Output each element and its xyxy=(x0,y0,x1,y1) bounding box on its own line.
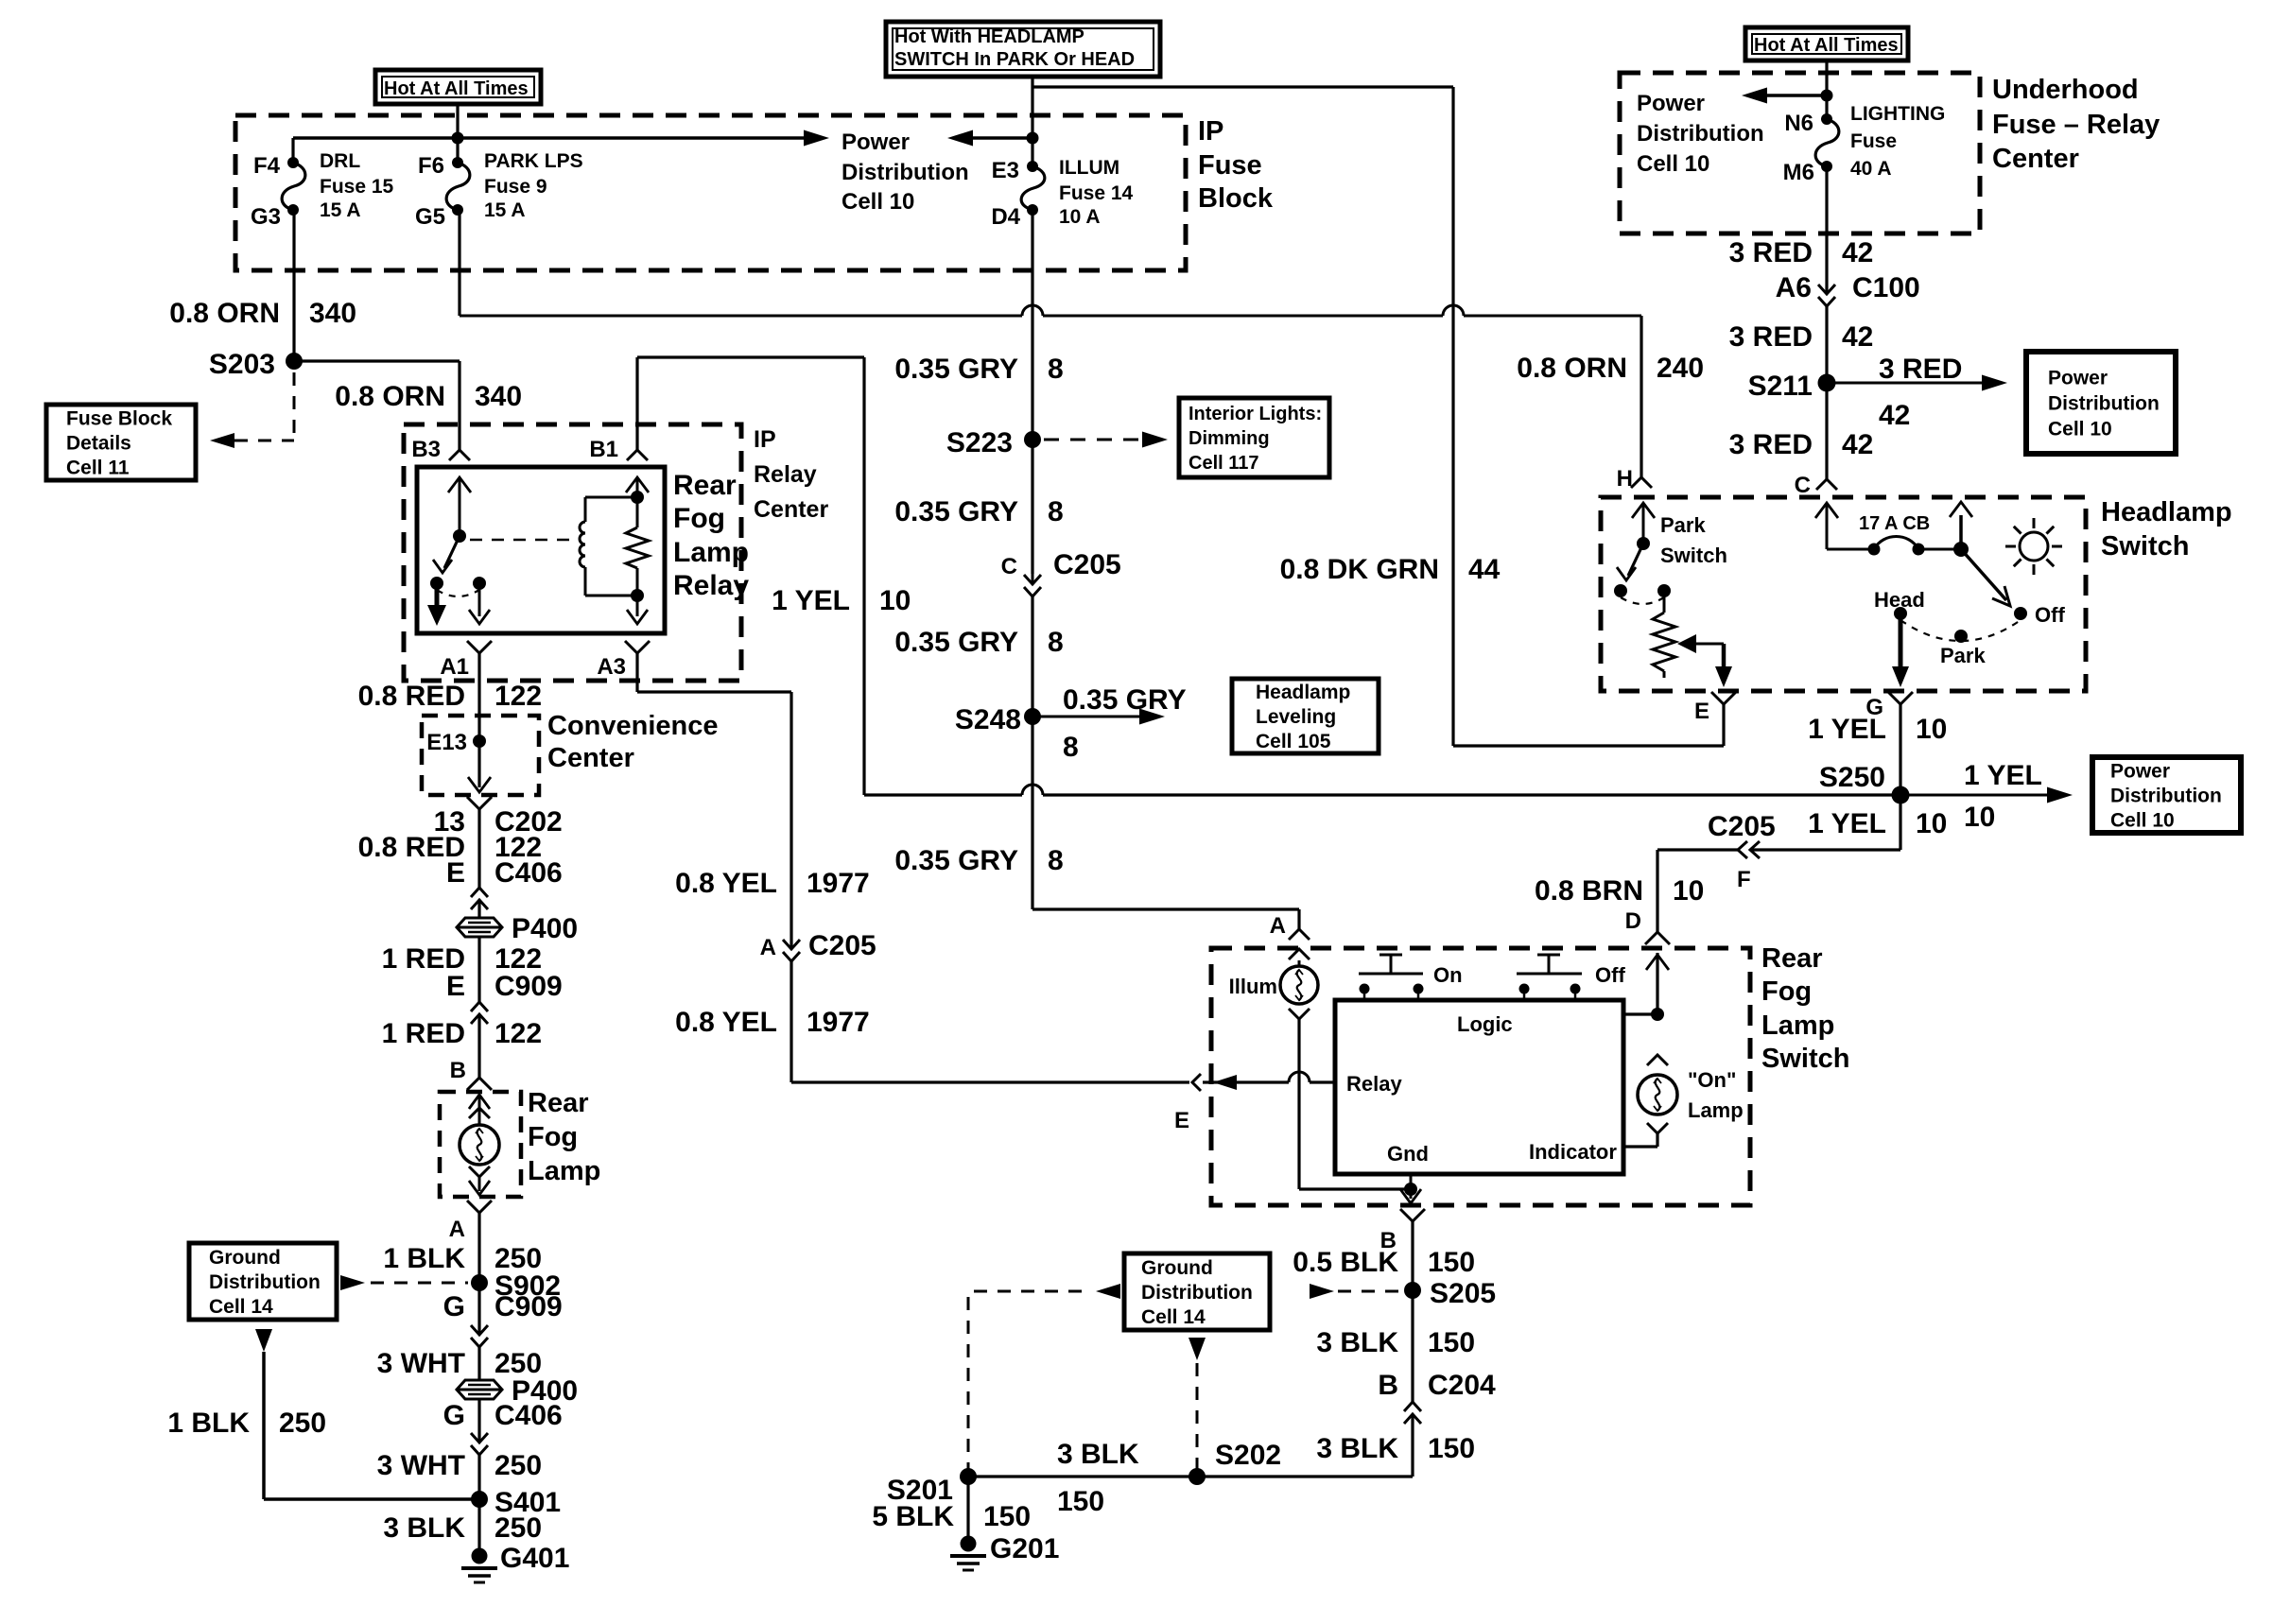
wire: to C406 connector xyxy=(477,809,480,888)
svg-text:G201: G201 xyxy=(990,1533,1059,1564)
fuse LIGHTING Fuse 40 A (N6-M6) xyxy=(1815,119,1839,166)
wire: 0.8 ORN 240 drop to H xyxy=(1640,316,1642,477)
wire: B1 riser to bus y=378 and east to x=914 xyxy=(635,357,638,450)
svg-text:A: A xyxy=(1270,913,1286,939)
wire+arrow into lamp xyxy=(469,1095,490,1109)
label box: Power Distribution Cell 10 (S250) xyxy=(2092,757,2241,833)
svg-text:Lamp: Lamp xyxy=(673,537,749,568)
wire: connector to S248 xyxy=(1031,596,1033,717)
wire: F6 drop xyxy=(456,138,459,163)
svg-text:0.8 BRN: 0.8 BRN xyxy=(1535,875,1643,907)
svg-text:3 BLK: 3 BLK xyxy=(1057,1439,1139,1470)
svg-text:Interior Lights:: Interior Lights: xyxy=(1189,404,1322,424)
wire: S211 to C pin xyxy=(1825,383,1828,479)
svg-text:150: 150 xyxy=(1428,1247,1475,1278)
node S203 xyxy=(286,353,303,370)
svg-text:PARK LPS: PARK LPS xyxy=(484,150,583,172)
svg-text:0.8 ORN: 0.8 ORN xyxy=(169,298,280,329)
arrow to Power Distribution (right) xyxy=(804,130,829,147)
relay resistor xyxy=(636,477,639,527)
svg-text:3 BLK: 3 BLK xyxy=(1316,1433,1398,1464)
wire: east to Rear Fog Lamp Switch pin E xyxy=(791,1080,1189,1083)
connector C406 lower (in-line) xyxy=(471,1433,488,1443)
svg-text:B: B xyxy=(1378,1370,1398,1401)
node: bus junction at F6 xyxy=(452,132,464,145)
wire: 0.8 BRN 10 down to D pin xyxy=(1656,850,1658,932)
pin A1 chevron xyxy=(467,641,492,653)
arrow: S250 to Power Distribution Cell 10 xyxy=(1900,794,2048,797)
svg-text:A: A xyxy=(449,1217,465,1242)
relay coil-switch dashed link xyxy=(470,539,577,542)
svg-text:SWITCH In PARK Or HEAD: SWITCH In PARK Or HEAD xyxy=(894,49,1135,70)
svg-text:Fuse 14: Fuse 14 xyxy=(1059,182,1134,204)
svg-text:340: 340 xyxy=(475,381,522,412)
svg-text:Center: Center xyxy=(1992,144,2079,174)
headlamp switch main contact feed xyxy=(1826,503,1829,549)
svg-text:Fuse 15: Fuse 15 xyxy=(320,176,394,198)
wire: S401 branch west and up to Ground Distribution xyxy=(264,1497,479,1501)
svg-text:Cell 10: Cell 10 xyxy=(2110,809,2175,831)
Rear Fog Lamp Switch dashed box xyxy=(1211,948,1750,1205)
svg-text:G5: G5 xyxy=(415,204,445,230)
contact Head xyxy=(1894,607,1907,620)
svg-text:A: A xyxy=(760,935,776,960)
svg-text:1 YEL: 1 YEL xyxy=(1808,714,1886,745)
wire: F4 drop xyxy=(291,138,294,162)
wire: E down, west, up DK GRN xyxy=(1722,704,1725,746)
svg-text:Fuse – Relay: Fuse – Relay xyxy=(1992,110,2160,140)
fuse PARK LPS Fuse 9 (F6-G5) xyxy=(446,163,470,210)
svg-text:C205: C205 xyxy=(1053,549,1121,580)
svg-text:Cell 105: Cell 105 xyxy=(1256,731,1331,752)
svg-text:E3: E3 xyxy=(992,158,1019,183)
svg-text:150: 150 xyxy=(983,1501,1031,1532)
svg-text:Convenience: Convenience xyxy=(547,711,719,741)
relay inner box (Rear Fog Lamp Relay) xyxy=(417,467,665,633)
node: junction above E3 xyxy=(1027,132,1039,145)
Logic box xyxy=(1335,1000,1623,1174)
svg-text:N6: N6 xyxy=(1784,111,1813,136)
svg-text:Rear: Rear xyxy=(528,1088,589,1118)
wire: lamp to box bottom with arrow xyxy=(469,1166,490,1177)
svg-text:Block: Block xyxy=(1198,183,1274,214)
svg-text:250: 250 xyxy=(495,1450,542,1481)
svg-text:1977: 1977 xyxy=(807,1007,870,1038)
dashed arrow: S223 to Interior Lights Dimming xyxy=(1044,439,1140,441)
wire: P400 to C406 lower connector xyxy=(477,1399,480,1443)
rheostat (dimmer) xyxy=(1663,591,1666,613)
svg-text:C205: C205 xyxy=(808,930,876,961)
wire: S201-S202-corner xyxy=(968,1475,1413,1477)
label box: Fuse Block Details Cell 11 xyxy=(46,405,196,480)
svg-text:340: 340 xyxy=(309,298,356,329)
svg-text:E: E xyxy=(446,857,465,889)
pin B1 chevron xyxy=(627,450,648,460)
svg-text:Cell 14: Cell 14 xyxy=(1141,1306,1206,1328)
svg-text:Indicator: Indicator xyxy=(1529,1140,1617,1164)
svg-text:10: 10 xyxy=(1964,802,1995,833)
switch blade to Off xyxy=(1961,549,2006,600)
svg-text:Switch: Switch xyxy=(1761,1044,1849,1074)
ground G201 xyxy=(961,1536,977,1552)
svg-text:Switch: Switch xyxy=(2101,531,2189,561)
wire: C100 to S211 xyxy=(1825,306,1828,383)
svg-text:ILLUM: ILLUM xyxy=(1059,157,1119,179)
svg-text:Cell 14: Cell 14 xyxy=(209,1296,273,1318)
node S205 xyxy=(1404,1282,1421,1299)
pin A3 chevron xyxy=(625,641,650,653)
svg-text:122: 122 xyxy=(495,1018,542,1049)
wire: to Rear Fog Lamp xyxy=(477,1014,480,1078)
rear fog lamp bulb xyxy=(460,1125,499,1165)
svg-text:3 BLK: 3 BLK xyxy=(1316,1327,1398,1358)
svg-text:Relay: Relay xyxy=(1346,1072,1402,1096)
label box: Interior Lights Dimming Cell 117 xyxy=(1179,398,1329,477)
node S401 xyxy=(471,1491,488,1508)
svg-text:8: 8 xyxy=(1063,732,1079,763)
svg-text:Leveling: Leveling xyxy=(1256,706,1336,728)
wire: B to S205 xyxy=(1411,1221,1414,1290)
wire: lamp to S902 xyxy=(477,1213,480,1283)
On indicator lamp xyxy=(1647,1055,1668,1065)
svg-text:F6: F6 xyxy=(418,153,444,179)
svg-text:Power: Power xyxy=(842,130,910,155)
svg-text:0.5 BLK: 0.5 BLK xyxy=(1293,1247,1398,1278)
wire into box with left arrow xyxy=(1203,1080,1289,1083)
svg-text:3 BLK: 3 BLK xyxy=(383,1512,465,1544)
wire: D4 down to S223 xyxy=(1031,210,1033,440)
svg-text:C909: C909 xyxy=(495,1291,563,1322)
svg-text:Switch: Switch xyxy=(1660,544,1727,567)
svg-text:240: 240 xyxy=(1657,353,1704,384)
arrow west to Power Distribution text xyxy=(1766,94,1827,97)
wire: S203 to B3 xyxy=(294,359,460,362)
svg-text:10: 10 xyxy=(879,585,911,616)
wire: A1 to Convenience Center xyxy=(477,653,480,716)
svg-text:0.35 GRY: 0.35 GRY xyxy=(894,354,1018,385)
svg-text:150: 150 xyxy=(1057,1486,1104,1517)
dashed link: box west to S201 riser xyxy=(1096,1284,1120,1299)
svg-text:42: 42 xyxy=(1842,237,1873,268)
svg-text:Distribution: Distribution xyxy=(2048,392,2160,414)
wire: 0.8 DK GRN 44 (E to ILLUM feed) xyxy=(1451,87,1454,746)
svg-text:122: 122 xyxy=(495,681,542,712)
dashed link: Ground Distribution to S205 xyxy=(1310,1284,1334,1299)
svg-text:C205: C205 xyxy=(1708,811,1776,842)
svg-text:Rear: Rear xyxy=(673,470,737,501)
wire: M6 down to C100 xyxy=(1825,166,1828,294)
svg-text:Hot With HEADLAMP: Hot With HEADLAMP xyxy=(894,26,1084,47)
svg-text:1 RED: 1 RED xyxy=(382,1018,465,1049)
wire: top feed line y=92 to DK GRN wire xyxy=(1032,85,1453,88)
contact Off xyxy=(2014,607,2027,620)
svg-text:Relay: Relay xyxy=(673,570,749,601)
svg-text:P400: P400 xyxy=(512,913,578,944)
svg-text:S203: S203 xyxy=(209,349,275,380)
svg-text:E: E xyxy=(446,971,465,1002)
svg-text:Fuse: Fuse xyxy=(1198,150,1262,181)
svg-text:S223: S223 xyxy=(946,427,1013,458)
wire: S205 down to C204 xyxy=(1411,1290,1414,1402)
svg-text:On: On xyxy=(1433,963,1463,987)
svg-text:"On": "On" xyxy=(1688,1068,1736,1092)
svg-text:0.8 RED: 0.8 RED xyxy=(358,681,465,712)
pin chevron below Convenience Center xyxy=(467,797,492,809)
svg-text:Illum: Illum xyxy=(1229,975,1277,998)
pin G chevron xyxy=(1888,692,1913,704)
wire: C204 to S202 corner xyxy=(1411,1414,1414,1477)
svg-text:8: 8 xyxy=(1048,627,1064,658)
svg-text:Distribution: Distribution xyxy=(209,1271,321,1293)
Off momentary switch xyxy=(1517,973,1582,976)
connector E chevron xyxy=(1192,1074,1201,1091)
svg-text:Fuse: Fuse xyxy=(1850,130,1897,152)
svg-text:S202: S202 xyxy=(1215,1440,1281,1471)
svg-text:Fuse 9: Fuse 9 xyxy=(484,176,547,198)
svg-text:Center: Center xyxy=(754,496,828,523)
svg-text:250: 250 xyxy=(279,1408,326,1439)
pin D chevron xyxy=(1645,932,1670,944)
node S248 xyxy=(1024,708,1041,725)
svg-text:1977: 1977 xyxy=(807,868,870,899)
svg-text:Ground: Ground xyxy=(1141,1257,1213,1279)
svg-text:C406: C406 xyxy=(495,857,563,889)
svg-text:Power: Power xyxy=(1637,91,1705,116)
svg-text:A6: A6 xyxy=(1776,272,1812,303)
svg-text:G401: G401 xyxy=(500,1543,569,1574)
svg-text:0.8 ORN: 0.8 ORN xyxy=(1517,353,1627,384)
Illum lamp xyxy=(1280,966,1318,1004)
svg-text:0.8 YEL: 0.8 YEL xyxy=(675,868,777,899)
svg-text:0.35 GRY: 0.35 GRY xyxy=(894,496,1018,527)
svg-text:Distribution: Distribution xyxy=(2110,785,2222,806)
ground G401 xyxy=(472,1548,488,1564)
label box: Power Distribution Cell 10 (S211) xyxy=(2026,352,2176,454)
svg-text:10: 10 xyxy=(1916,808,1947,839)
pin A chevron (Rear Fog Lamp Switch) xyxy=(1289,929,1310,940)
svg-text:Fog: Fog xyxy=(673,503,725,534)
svg-text:F: F xyxy=(1737,867,1751,892)
pin chevron above Rear Fog Lamp box xyxy=(467,1078,492,1090)
svg-text:C909: C909 xyxy=(495,971,563,1002)
Rear Fog Lamp dashed box xyxy=(440,1092,521,1197)
node: D-Logic junction xyxy=(1651,1008,1664,1021)
svg-text:Relay: Relay xyxy=(754,461,817,488)
svg-text:15 A: 15 A xyxy=(320,199,361,221)
svg-text:G3: G3 xyxy=(251,204,281,230)
wire: S401 to G401 xyxy=(477,1499,480,1556)
IP Fuse Block dashed box xyxy=(235,115,1186,270)
arrow from ILLUM junction to Power Distribution (left) xyxy=(947,130,973,147)
svg-text:C: C xyxy=(1795,473,1811,498)
heavy wire: Head contact to G output xyxy=(1899,613,1903,674)
wire: S250 branch down-west to C205 F xyxy=(1899,795,1901,850)
svg-text:42: 42 xyxy=(1842,321,1873,353)
svg-text:Fog: Fog xyxy=(1761,976,1812,1007)
svg-text:IP: IP xyxy=(754,426,776,453)
dashed link: Ground Distribution to S902 xyxy=(340,1275,365,1290)
svg-text:Park: Park xyxy=(1660,513,1706,537)
wire: through E13 with arrow xyxy=(477,716,480,787)
svg-text:Head: Head xyxy=(1874,588,1925,612)
wire: G5 down and east bus y=334 xyxy=(458,210,460,316)
dashed link: box south to S202 xyxy=(1189,1338,1206,1360)
Underhood Fuse-Relay Center dashed box xyxy=(1620,73,1980,233)
label box: Headlamp Leveling Cell 105 xyxy=(1232,679,1379,753)
pin C chevron xyxy=(1816,479,1837,490)
svg-text:E: E xyxy=(1694,699,1709,724)
svg-text:0.8 DK GRN: 0.8 DK GRN xyxy=(1280,554,1439,585)
svg-text:Fog: Fog xyxy=(528,1122,578,1152)
park switch arm xyxy=(1642,503,1645,544)
svg-text:1 YEL: 1 YEL xyxy=(1808,808,1886,839)
svg-text:42: 42 xyxy=(1879,400,1910,431)
svg-text:0.35 GRY: 0.35 GRY xyxy=(894,845,1018,876)
svg-text:Headlamp: Headlamp xyxy=(1256,682,1350,703)
svg-text:B1: B1 xyxy=(589,437,618,462)
label box: Hot At All Times (left) xyxy=(375,70,541,104)
node S211 xyxy=(1818,374,1836,392)
arrow: S211 to Power Distribution Cell 10 xyxy=(1827,382,1983,385)
sun symbol (panel dimming) xyxy=(2020,532,2048,561)
wire: S201 to G201 xyxy=(966,1477,969,1544)
svg-text:10 A: 10 A xyxy=(1059,206,1101,228)
label box: Ground Distribution Cell 14 (left) xyxy=(189,1243,337,1320)
svg-text:C100: C100 xyxy=(1852,272,1920,303)
label box: Ground Distribution Cell 14 (middle) xyxy=(1124,1253,1270,1330)
wire: box down to E3 xyxy=(1031,77,1033,163)
svg-text:3 RED: 3 RED xyxy=(1729,321,1813,353)
connector C204 (in-line) xyxy=(1404,1414,1421,1424)
svg-text:G: G xyxy=(443,1400,465,1431)
arrow: S248 to Headlamp Leveling xyxy=(1032,716,1140,718)
fuse DRL Fuse 15 (F4-G3) xyxy=(282,163,305,210)
svg-text:S211: S211 xyxy=(1748,371,1813,402)
svg-text:1 BLK: 1 BLK xyxy=(383,1243,465,1274)
fuse ILLUM Fuse 14 (E3-D4) xyxy=(1021,166,1045,210)
svg-text:C406: C406 xyxy=(495,1400,563,1431)
pin E chevron xyxy=(1711,692,1736,704)
svg-text:Distribution: Distribution xyxy=(1637,121,1764,147)
svg-text:Hot At All Times: Hot At All Times xyxy=(384,78,529,99)
svg-text:3 RED: 3 RED xyxy=(1729,237,1813,268)
park switch contacts xyxy=(1614,584,1627,597)
svg-text:3 WHT: 3 WHT xyxy=(377,1348,465,1379)
svg-text:44: 44 xyxy=(1468,554,1501,585)
svg-text:E: E xyxy=(1174,1108,1189,1133)
svg-text:Lamp: Lamp xyxy=(528,1156,600,1186)
svg-text:3 RED: 3 RED xyxy=(1729,429,1813,460)
svg-text:Logic: Logic xyxy=(1457,1012,1513,1036)
node S201 xyxy=(960,1468,977,1485)
svg-text:Lamp: Lamp xyxy=(1688,1098,1744,1122)
svg-text:S205: S205 xyxy=(1430,1278,1496,1309)
svg-text:F4: F4 xyxy=(253,153,281,179)
svg-text:DRL: DRL xyxy=(320,150,360,172)
wire: to P400 lower xyxy=(477,1347,480,1380)
wire: G3 to S203 xyxy=(292,210,295,361)
svg-text:0.35 GRY: 0.35 GRY xyxy=(894,627,1018,658)
svg-text:Distribution: Distribution xyxy=(842,160,969,185)
wire: G to S250 xyxy=(1899,704,1901,795)
svg-text:A1: A1 xyxy=(440,654,469,680)
contact Park xyxy=(1954,630,1968,643)
svg-text:Cell 10: Cell 10 xyxy=(2048,418,2112,440)
splice P400 xyxy=(457,918,502,937)
svg-text:LIGHTING: LIGHTING xyxy=(1850,103,1945,125)
wire: P400 to C909 connector xyxy=(477,937,480,1002)
svg-text:Off: Off xyxy=(1595,963,1625,987)
svg-text:10: 10 xyxy=(1916,714,1947,745)
wire: S223 down to connector C205 C xyxy=(1031,440,1033,574)
wire: S250 west bus to x=914 xyxy=(864,793,1022,796)
svg-text:Rear: Rear xyxy=(1761,943,1823,974)
svg-text:Park: Park xyxy=(1940,644,1986,667)
svg-text:8: 8 xyxy=(1048,496,1064,527)
svg-text:Underhood: Underhood xyxy=(1992,75,2139,105)
wire: Hot At All Times into box xyxy=(1825,60,1828,119)
node E13 xyxy=(473,734,486,748)
svg-text:Cell 10: Cell 10 xyxy=(1637,151,1709,177)
relay contacts xyxy=(430,577,443,590)
svg-text:0.8 YEL: 0.8 YEL xyxy=(675,1007,777,1038)
svg-text:0.8 ORN: 0.8 ORN xyxy=(335,381,445,412)
svg-text:D4: D4 xyxy=(991,204,1020,230)
wire: bus y=146 to Power Distribution arrow xyxy=(293,136,804,140)
connector C406 (in-line) xyxy=(471,900,488,909)
wire: A pin into Illum lamp xyxy=(1289,949,1310,959)
svg-text:10: 10 xyxy=(1673,875,1704,907)
wire: A3 down, east, down x=837 xyxy=(635,653,638,692)
svg-text:S250: S250 xyxy=(1819,762,1885,793)
svg-text:Details: Details xyxy=(66,432,131,454)
svg-text:42: 42 xyxy=(1842,429,1873,460)
svg-text:Headlamp: Headlamp xyxy=(2101,497,2232,527)
svg-text:C: C xyxy=(1001,554,1017,579)
pin B chevron (gnd) xyxy=(1400,1209,1425,1221)
Convenience Center dashed box xyxy=(422,716,539,795)
svg-text:G: G xyxy=(443,1291,465,1322)
svg-text:Distribution: Distribution xyxy=(1141,1282,1253,1304)
wire: S248 down, corner east to Rear Fog Lamp Switch pin A xyxy=(1031,717,1033,909)
svg-text:1 YEL: 1 YEL xyxy=(1964,760,2042,791)
IP Relay Center dashed box xyxy=(404,424,741,681)
svg-text:B3: B3 xyxy=(411,437,441,462)
svg-text:Power: Power xyxy=(2110,760,2170,782)
label box: Hot With HEADLAMP SWITCH In PARK Or HEAD xyxy=(886,22,1160,77)
node: junction at N6 feed xyxy=(1821,90,1833,102)
node S902 xyxy=(471,1274,488,1291)
svg-text:Off: Off xyxy=(2035,603,2065,627)
relay coil xyxy=(584,497,587,522)
pin H chevron xyxy=(1631,477,1652,488)
svg-text:A3: A3 xyxy=(597,654,626,680)
svg-text:H: H xyxy=(1617,466,1633,492)
relay contact arrows to A1/A3 outputs xyxy=(435,583,440,614)
arrow up to box top xyxy=(1959,515,1963,549)
svg-text:C204: C204 xyxy=(1428,1370,1496,1401)
svg-text:1 YEL: 1 YEL xyxy=(772,585,850,616)
svg-text:5 BLK: 5 BLK xyxy=(872,1501,954,1532)
dashed arc Head-Park-Off xyxy=(1900,620,2021,641)
wire: S902 to C909 connector xyxy=(477,1283,480,1335)
wire: connector down to E wire xyxy=(789,961,792,1082)
Gnd output xyxy=(1410,1174,1413,1189)
svg-text:IP: IP xyxy=(1198,116,1223,147)
svg-text:17 A CB: 17 A CB xyxy=(1859,513,1930,534)
svg-text:0.35 GRY: 0.35 GRY xyxy=(1063,684,1187,716)
connector C909 lower (in-line) xyxy=(471,1325,488,1335)
